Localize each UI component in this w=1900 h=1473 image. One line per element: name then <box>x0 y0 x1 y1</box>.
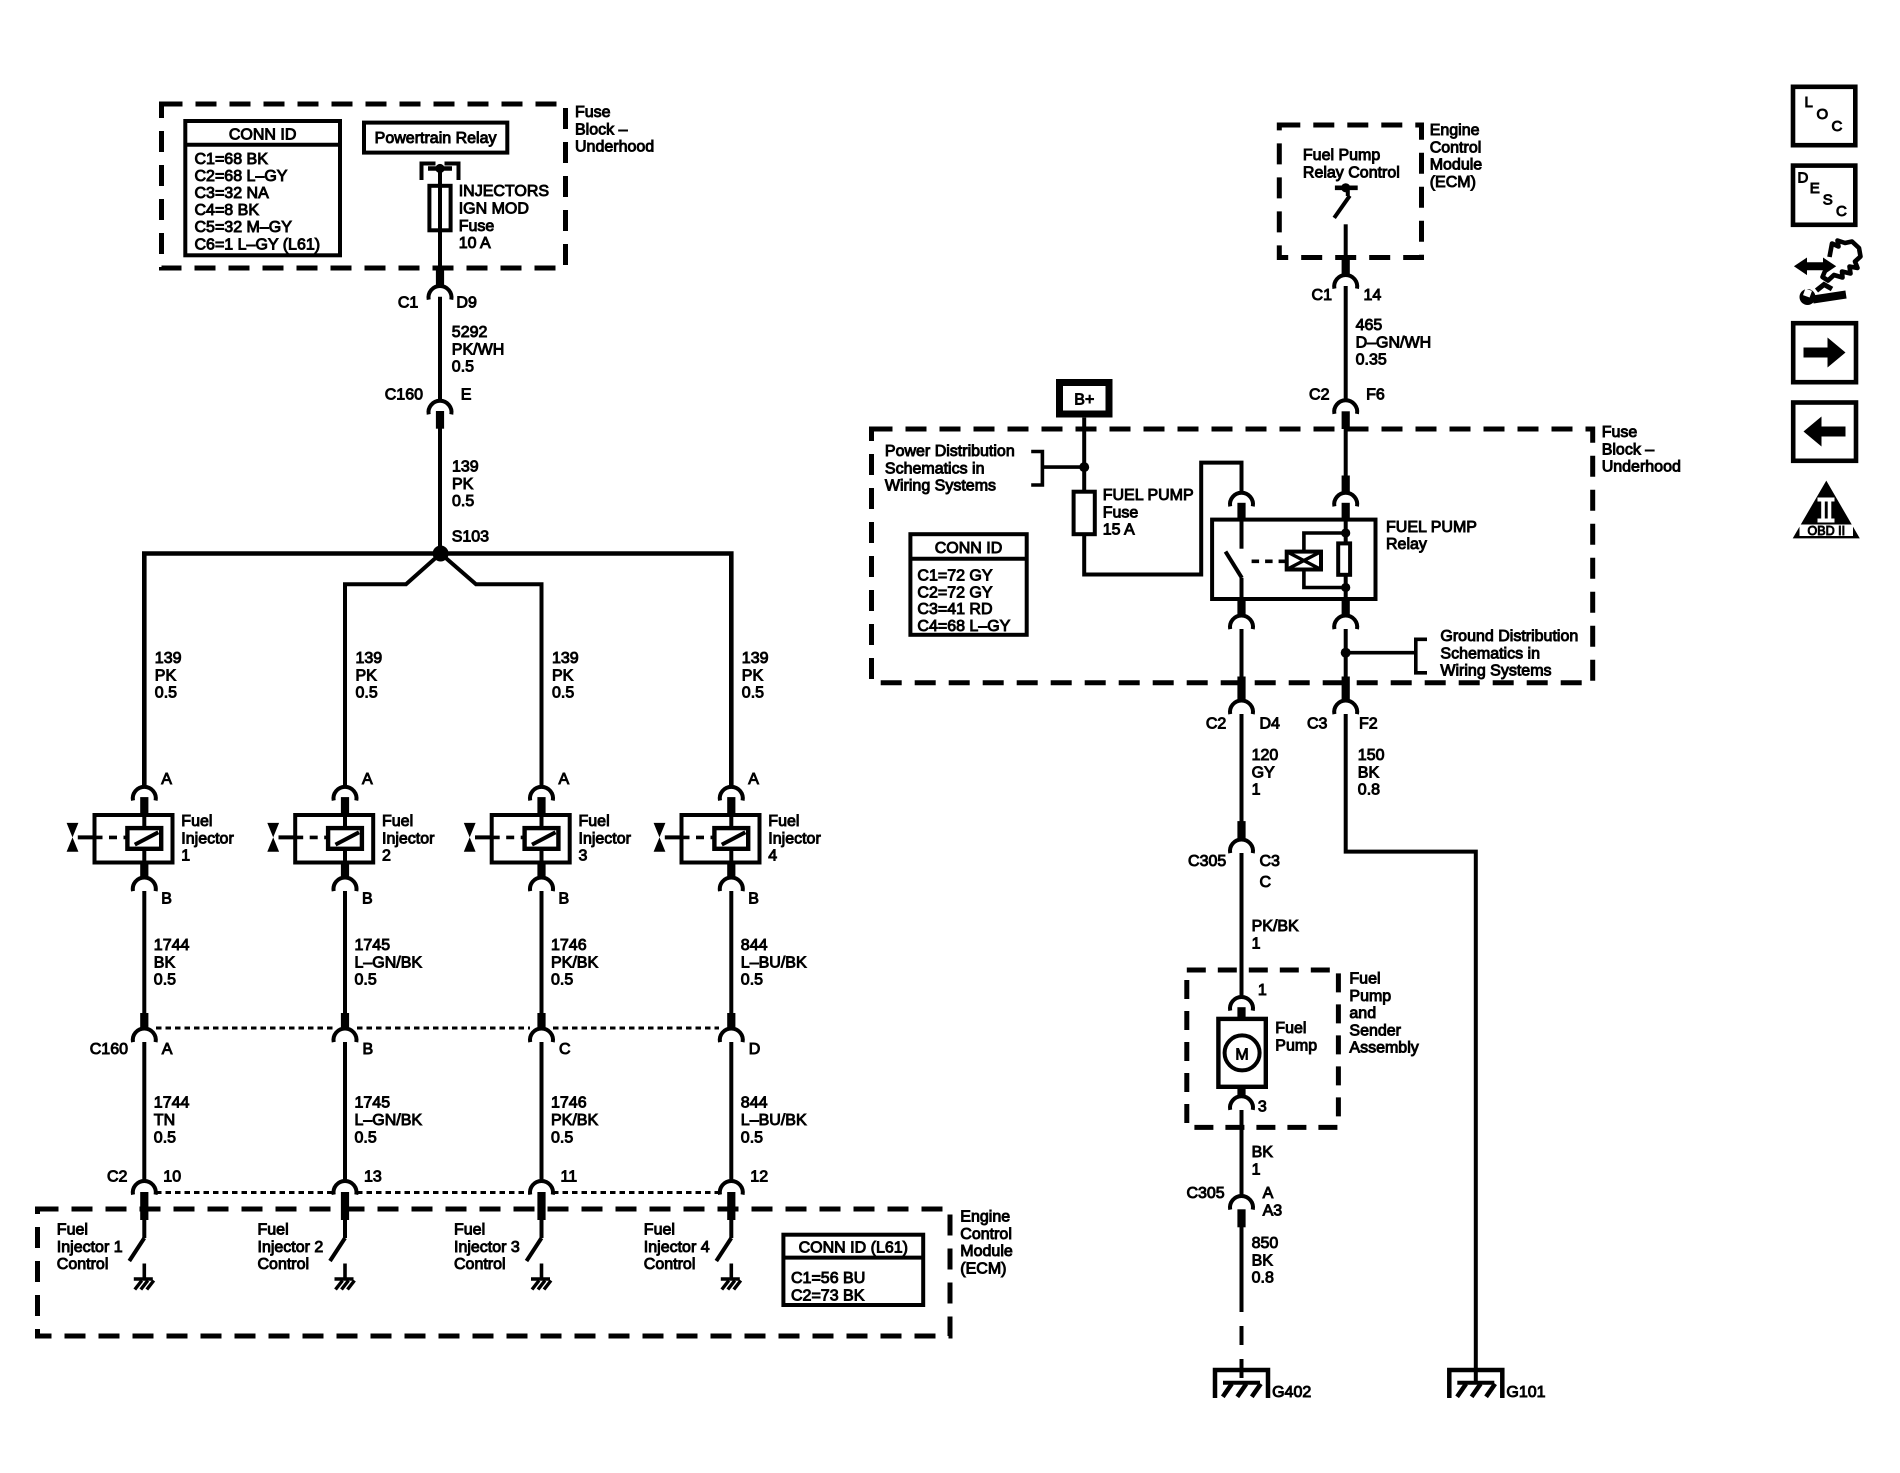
svg-text:Control: Control <box>454 1256 506 1273</box>
fuse FUEL PUMP 15A <box>1074 492 1095 535</box>
svg-text:C1: C1 <box>398 295 419 312</box>
svg-text:3: 3 <box>579 848 588 865</box>
connector C1/D9 <box>398 269 477 312</box>
splice S103 <box>433 529 490 562</box>
svg-text:C: C <box>1260 874 1272 891</box>
label: Power Distribution Schematics in Wiring Systems <box>885 443 1015 495</box>
svg-text:PK: PK <box>356 667 378 684</box>
fuel injector 2 pin B <box>334 863 373 908</box>
svg-text:Control: Control <box>960 1226 1012 1243</box>
fuel injector 3 pin B <box>530 863 569 908</box>
svg-text:C: C <box>559 1041 571 1058</box>
svg-text:Ground Distribution: Ground Distribution <box>1440 628 1578 645</box>
svg-text:PK/BK: PK/BK <box>1252 918 1299 935</box>
label: Fuel Injector 1 <box>181 813 234 865</box>
wire value: 844 L&#8211;BU/BK 0.5 <box>741 1095 807 1147</box>
wire BK 1 <box>1240 1110 1244 1196</box>
svg-text:A: A <box>559 771 570 788</box>
svg-text:Relay Control: Relay Control <box>1303 164 1400 181</box>
fuel injector 1 pin B <box>133 863 172 908</box>
wire value: 139 PK 0.5 (trunk) <box>452 459 479 511</box>
svg-text:Fuel: Fuel <box>579 813 610 830</box>
wire 850 BK 0.8 <box>1240 1227 1244 1293</box>
label: G101 <box>1506 1384 1545 1401</box>
label: Fuel Injector 3 <box>579 813 632 865</box>
relay coil bracket wires <box>1304 533 1346 588</box>
fuse block underhood (right) dashed box <box>872 429 1593 683</box>
CONN ID right values <box>917 568 1010 635</box>
svg-text:12: 12 <box>750 1169 768 1186</box>
wire (dashed continuation to G402) <box>1240 1293 1244 1383</box>
svg-text:C2=68 L–GY: C2=68 L–GY <box>195 168 288 185</box>
svg-text:Fuel: Fuel <box>181 813 212 830</box>
Powertrain Relay box <box>364 123 507 153</box>
svg-text:844: 844 <box>741 937 768 954</box>
svg-text:A: A <box>362 771 373 788</box>
junction node (coil top) <box>1341 528 1350 537</box>
fuse block underhood (left) dashed box <box>162 104 566 268</box>
svg-text:C160: C160 <box>385 387 423 404</box>
svg-text:Fuel: Fuel <box>644 1222 675 1239</box>
svg-text:CONN ID: CONN ID <box>229 127 297 144</box>
ground distribution bracket <box>1416 639 1427 673</box>
fuel injector 1 nozzle symbol <box>67 823 95 852</box>
wire value: 139 PK 0.5 (branch 3) <box>552 650 579 702</box>
svg-text:A: A <box>162 1041 173 1058</box>
svg-text:Fuel Pump: Fuel Pump <box>1303 147 1380 164</box>
svg-text:10: 10 <box>163 1169 181 1186</box>
svg-text:Assembly: Assembly <box>1349 1040 1418 1057</box>
svg-text:Fuel: Fuel <box>382 813 413 830</box>
wire value: 139 PK 0.5 (branch 1) <box>155 650 182 702</box>
svg-text:PK: PK <box>742 667 764 684</box>
fuel injector 2 nozzle symbol <box>267 823 295 852</box>
svg-text:G402: G402 <box>1272 1384 1311 1401</box>
fuel pump pin 1 <box>1230 982 1267 1020</box>
svg-text:0.8: 0.8 <box>1358 782 1380 799</box>
svg-text:139: 139 <box>452 459 479 476</box>
wire 1745 (C160 to ECM) <box>343 1042 347 1181</box>
wire 5292 PK/WH 0.5 <box>438 297 442 401</box>
fuel injector 1 control driver (switch) <box>129 1220 144 1280</box>
wire value: 139 PK 0.5 (branch 2) <box>356 650 383 702</box>
svg-text:Fuel: Fuel <box>454 1222 485 1239</box>
svg-text:Underhood: Underhood <box>575 139 654 156</box>
svg-text:Control: Control <box>644 1256 696 1273</box>
svg-text:3: 3 <box>1258 1099 1267 1116</box>
engine control module (ECM, top right) dashed box <box>1279 125 1421 258</box>
svg-text:13: 13 <box>364 1169 382 1186</box>
svg-text:BK: BK <box>154 954 176 971</box>
svg-text:1: 1 <box>181 848 190 865</box>
svg-text:1: 1 <box>1252 1161 1261 1178</box>
svg-text:Pump: Pump <box>1275 1037 1317 1054</box>
svg-text:D: D <box>1798 170 1809 187</box>
svg-text:0.5: 0.5 <box>155 685 177 702</box>
svg-text:Schematics in: Schematics in <box>885 460 985 477</box>
svg-text:0.8: 0.8 <box>1252 1270 1274 1287</box>
svg-text:B: B <box>363 1041 374 1058</box>
svg-text:Fuse: Fuse <box>459 218 495 235</box>
connector C160 pin D <box>720 1014 761 1059</box>
svg-text:Control: Control <box>57 1256 109 1273</box>
svg-text:C160: C160 <box>90 1041 128 1058</box>
svg-text:Fuel: Fuel <box>258 1222 289 1239</box>
fuel injector 2 control driver (switch) <box>330 1220 345 1280</box>
label: Fuel Injector 3 Control <box>454 1222 520 1274</box>
svg-text:Control: Control <box>258 1256 310 1273</box>
svg-text:Schematics in: Schematics in <box>1440 645 1540 662</box>
svg-text:C3=32 NA: C3=32 NA <box>195 185 270 202</box>
svg-text:D: D <box>749 1041 761 1058</box>
svg-text:(ECM): (ECM) <box>960 1260 1006 1277</box>
label: Engine Control Module (ECM) top <box>1430 122 1483 191</box>
svg-text:15 A: 15 A <box>1103 522 1135 539</box>
svg-text:1746: 1746 <box>551 937 587 954</box>
svg-text:Relay: Relay <box>1386 536 1427 553</box>
wire value: 850 BK 0.8 <box>1252 1235 1279 1287</box>
label: Fuel Injector 4 <box>768 813 821 865</box>
svg-text:Sender: Sender <box>1349 1022 1401 1039</box>
svg-text:C2: C2 <box>107 1169 128 1186</box>
powertrain relay contact symbol <box>422 164 459 181</box>
svg-text:1745: 1745 <box>355 1095 391 1112</box>
svg-text:Module: Module <box>960 1243 1013 1260</box>
relay resistor <box>1338 520 1350 599</box>
svg-text:C5=32 M–GY: C5=32 M–GY <box>195 219 293 236</box>
svg-text:C2: C2 <box>1309 387 1330 404</box>
wire: splice branch to injector 2 <box>345 554 441 787</box>
label: Engine Control Module (ECM) bottom <box>960 1209 1013 1278</box>
connector C2 dashed line <box>156 1191 719 1194</box>
junction node (coil bottom) <box>1341 583 1350 592</box>
connector C2 pin 11 <box>530 1169 577 1220</box>
svg-text:844: 844 <box>741 1095 768 1112</box>
svg-text:Fuse: Fuse <box>1103 504 1139 521</box>
svg-text:C2: C2 <box>1206 715 1227 732</box>
svg-text:Wiring Systems: Wiring Systems <box>885 478 996 495</box>
svg-text:C: C <box>1836 203 1847 220</box>
svg-text:465: 465 <box>1356 317 1383 334</box>
svg-text:PK: PK <box>155 667 177 684</box>
svg-text:Engine: Engine <box>960 1209 1010 1226</box>
icon: forward arrow button <box>1793 323 1856 382</box>
svg-text:0.5: 0.5 <box>355 972 377 989</box>
connector C160/E <box>385 387 472 429</box>
svg-text:0.5: 0.5 <box>551 1129 573 1146</box>
svg-text:0.5: 0.5 <box>452 359 474 376</box>
wire value: 1745 L&#8211;GN/BK 0.5 <box>355 937 423 989</box>
fuel pump pin 3 <box>1230 1087 1267 1116</box>
label: FUEL PUMP Relay <box>1386 519 1477 553</box>
svg-text:Pump: Pump <box>1349 988 1391 1005</box>
svg-text:Fuel: Fuel <box>1275 1020 1306 1037</box>
relay input connector (switch side) <box>1230 493 1253 520</box>
connector C2/D4 <box>1206 677 1280 732</box>
wire 139 PK 0.5 (trunk) <box>438 428 442 549</box>
fuel injector 3 (solenoid valve) <box>492 815 570 863</box>
connector C3/F2 <box>1307 677 1378 732</box>
wire value: 120 GY 1 <box>1252 747 1279 799</box>
svg-text:1: 1 <box>1252 935 1261 952</box>
svg-text:850: 850 <box>1252 1235 1279 1252</box>
wire: relay output to C2/D4 <box>1240 629 1244 677</box>
label: C305 pin C <box>1260 874 1272 891</box>
label: Ground Distribution Schematics in Wiring Systems <box>1440 628 1578 680</box>
svg-text:C305: C305 <box>1188 853 1226 870</box>
fuel injector 3 nozzle symbol <box>464 823 492 852</box>
fuel injector 4 (solenoid valve) <box>682 815 760 863</box>
fuel injector 2 pin A <box>334 771 374 815</box>
svg-text:Block –: Block – <box>575 121 628 138</box>
svg-text:1: 1 <box>1258 982 1267 999</box>
svg-text:A: A <box>1263 1185 1274 1202</box>
fuel pump and sender assembly dashed box <box>1187 970 1339 1127</box>
svg-text:Underhood: Underhood <box>1602 459 1681 476</box>
svg-text:PK: PK <box>452 476 474 493</box>
svg-text:S: S <box>1823 192 1833 209</box>
fuel pump motor M <box>1218 1019 1265 1087</box>
label C160 (connector row) <box>90 1041 128 1058</box>
svg-text:Injector 3: Injector 3 <box>454 1239 520 1256</box>
svg-text:A3: A3 <box>1263 1203 1283 1220</box>
svg-text:C4=68 L–GY: C4=68 L–GY <box>917 618 1010 635</box>
ground (fuel injector 3 control) <box>531 1279 551 1290</box>
label: Fuel Pump and Sender Assembly <box>1349 971 1418 1057</box>
svg-text:FUEL PUMP: FUEL PUMP <box>1386 519 1477 536</box>
svg-text:Injector: Injector <box>768 830 821 847</box>
wire 465 D-GN/WH 0.35 <box>1344 286 1348 400</box>
svg-text:D4: D4 <box>1260 715 1281 732</box>
CONN ID table (fuse block right) <box>910 534 1026 635</box>
svg-text:Fuse: Fuse <box>575 104 611 121</box>
connector C160 pin A <box>133 1014 173 1059</box>
svg-text:1744: 1744 <box>154 1095 190 1112</box>
icon: back arrow button <box>1793 403 1856 461</box>
svg-text:L–BU/BK: L–BU/BK <box>741 1112 807 1129</box>
battery feed B+ <box>1060 383 1110 415</box>
svg-text:BK: BK <box>1252 1144 1274 1161</box>
wire 1746 (injector 3 to C160) <box>540 891 544 1017</box>
wire value: 1744 TN 0.5 <box>154 1095 190 1147</box>
svg-text:B: B <box>559 891 570 908</box>
svg-text:CONN ID (L61): CONN ID (L61) <box>799 1240 908 1257</box>
CONN ID table values <box>195 151 321 254</box>
wire: splice branch to injector 3 <box>441 554 542 787</box>
connector C160 dashed line <box>156 1027 719 1030</box>
svg-text:Injector 4: Injector 4 <box>644 1239 710 1256</box>
svg-text:Powertrain Relay: Powertrain Relay <box>375 130 497 147</box>
svg-text:1745: 1745 <box>355 937 391 954</box>
svg-text:PK/WH: PK/WH <box>452 341 504 358</box>
wire 150 BK 0.8 (to G101) <box>1346 714 1476 1383</box>
svg-text:C3: C3 <box>1260 853 1281 870</box>
svg-text:D9: D9 <box>456 295 477 312</box>
wire: C2/F6 to fuel pump relay <box>1344 429 1348 493</box>
relay contact (switch) <box>1226 520 1242 599</box>
svg-text:A: A <box>161 771 172 788</box>
ground (fuel injector 4 control) <box>721 1279 741 1290</box>
svg-text:4: 4 <box>768 848 777 865</box>
svg-text:C1=68 BK: C1=68 BK <box>195 151 269 168</box>
svg-text:Injector: Injector <box>579 830 632 847</box>
svg-text:0.5: 0.5 <box>356 685 378 702</box>
svg-text:139: 139 <box>552 650 579 667</box>
svg-text:FUEL PUMP: FUEL PUMP <box>1103 487 1194 504</box>
svg-text:C1=56 BU: C1=56 BU <box>791 1270 865 1287</box>
junction node (ground distribution) <box>1341 648 1416 658</box>
svg-text:OBD II: OBD II <box>1808 524 1846 538</box>
svg-text:BK: BK <box>1252 1252 1274 1269</box>
svg-text:1: 1 <box>1252 782 1261 799</box>
svg-text:Fuse: Fuse <box>1602 424 1638 441</box>
svg-text:PK/BK: PK/BK <box>551 1112 598 1129</box>
svg-text:Engine: Engine <box>1430 122 1480 139</box>
CONN ID (L61) table <box>783 1235 923 1305</box>
wire value: 5292 PK/WH 0.5 <box>452 324 504 376</box>
label: FUEL PUMP Fuse 15 A <box>1103 487 1194 539</box>
svg-text:120: 120 <box>1252 747 1279 764</box>
svg-text:C6=1 L–GY (L61): C6=1 L–GY (L61) <box>195 236 321 253</box>
fuel injector 4 nozzle symbol <box>654 823 682 852</box>
svg-text:11: 11 <box>561 1169 578 1186</box>
connector C2/F6 <box>1309 387 1385 429</box>
svg-text:Injector: Injector <box>181 830 234 847</box>
FUEL PUMP relay box <box>1212 520 1375 599</box>
svg-text:S103: S103 <box>452 529 489 546</box>
svg-text:INJECTORS: INJECTORS <box>459 183 549 200</box>
icon: OBD II badge <box>1793 481 1860 539</box>
label: Fuel Injector 1 Control <box>57 1222 123 1274</box>
svg-text:14: 14 <box>1364 287 1382 304</box>
svg-text:TN: TN <box>154 1112 175 1129</box>
wire value: 844 L&#8211;BU/BK 0.5 <box>741 937 807 989</box>
svg-text:0.5: 0.5 <box>355 1129 377 1146</box>
wire value: 465 D-GN/WH 0.35 <box>1356 317 1432 369</box>
svg-text:BK: BK <box>1358 764 1380 781</box>
svg-text:B+: B+ <box>1074 392 1094 409</box>
svg-text:PK/BK: PK/BK <box>551 954 598 971</box>
ground G402 <box>1215 1370 1268 1398</box>
wire value: BK 1 <box>1252 1144 1274 1178</box>
svg-text:C4=8 BK: C4=8 BK <box>195 202 260 219</box>
wire 1746 (C160 to ECM) <box>540 1042 544 1181</box>
svg-text:C305: C305 <box>1186 1185 1224 1202</box>
svg-text:0.5: 0.5 <box>742 685 764 702</box>
svg-text:Injector 1: Injector 1 <box>57 1239 123 1256</box>
svg-text:F2: F2 <box>1359 715 1378 732</box>
connector C2 pin 10 <box>133 1169 181 1220</box>
CONN ID table (fuse block left) <box>185 121 340 255</box>
fuel injector 3 control driver (switch) <box>527 1220 542 1280</box>
svg-text:M: M <box>1235 1046 1248 1063</box>
svg-text:L–GN/BK: L–GN/BK <box>355 1112 423 1129</box>
label: G402 <box>1272 1384 1311 1401</box>
svg-text:Module: Module <box>1430 157 1483 174</box>
wire: fuse to relay switch <box>1084 463 1241 575</box>
svg-text:Injector 2: Injector 2 <box>258 1239 324 1256</box>
svg-text:B: B <box>362 891 373 908</box>
connector C305/A/A3 <box>1186 1185 1282 1227</box>
svg-text:B: B <box>748 891 759 908</box>
fuel injector 4 pin A <box>720 771 759 815</box>
power distribution bracket + wire <box>1031 452 1084 486</box>
relay coil <box>1287 552 1321 570</box>
fuel pump relay control driver (switch) <box>1334 183 1358 257</box>
svg-text:Fuel: Fuel <box>57 1222 88 1239</box>
svg-text:PK: PK <box>552 667 574 684</box>
svg-text:IGN MOD: IGN MOD <box>459 200 529 217</box>
svg-text:0.5: 0.5 <box>552 685 574 702</box>
svg-text:2: 2 <box>382 848 391 865</box>
wire value: 1746 PK/BK 0.5 <box>551 1095 598 1147</box>
fuel injector 4 pin B <box>720 863 759 908</box>
svg-text:C2=73 BK: C2=73 BK <box>791 1287 865 1304</box>
relay output connector (coil side) <box>1334 599 1357 629</box>
label: Fuse Block - Underhood (right) <box>1602 424 1681 476</box>
wire value: 150 BK 0.8 <box>1358 747 1385 799</box>
CONN ID (L61) values <box>791 1270 865 1304</box>
relay actuation dashed link <box>1252 559 1287 563</box>
svg-text:B: B <box>161 891 172 908</box>
svg-text:1746: 1746 <box>551 1095 587 1112</box>
svg-text:Block –: Block – <box>1602 441 1655 458</box>
icon: LOC button <box>1793 87 1855 145</box>
svg-text:A: A <box>748 771 759 788</box>
connector C160 pin B <box>334 1014 374 1059</box>
label: Fuel Injector 2 Control <box>258 1222 324 1274</box>
connector C160 pin C <box>530 1014 571 1059</box>
svg-text:C3=41 RD: C3=41 RD <box>917 601 992 618</box>
svg-text:L–BU/BK: L–BU/BK <box>741 954 807 971</box>
label: Fuel Pump <box>1275 1020 1317 1054</box>
svg-text:Wiring Systems: Wiring Systems <box>1440 663 1551 680</box>
svg-text:0.5: 0.5 <box>741 972 763 989</box>
label: INJECTORS IGN MOD Fuse 10 A <box>459 183 549 252</box>
wire value: 139 PK 0.5 (branch 4) <box>742 650 769 702</box>
wire 120 GY 1 <box>1240 714 1244 839</box>
wire: splice branch to injectors 1 and 4 <box>144 554 731 787</box>
fuel injector 4 control driver (switch) <box>716 1220 731 1280</box>
ground (fuel injector 2 control) <box>335 1279 355 1290</box>
label: Fuse Block - Underhood (left) <box>575 104 654 156</box>
svg-text:C1: C1 <box>1312 287 1333 304</box>
svg-text:139: 139 <box>742 650 769 667</box>
wire: B+ to fuel pump fuse <box>1082 418 1086 492</box>
fuse INJECTORS IGN MOD 10A <box>429 186 450 231</box>
fuel injector 3 pin A <box>530 771 570 815</box>
wire value: 1745 L&#8211;GN/BK 0.5 <box>355 1095 423 1147</box>
svg-text:10 A: 10 A <box>459 235 491 252</box>
svg-text:C3: C3 <box>1307 715 1328 732</box>
svg-text:0.35: 0.35 <box>1356 352 1387 369</box>
wire value: 1746 PK/BK 0.5 <box>551 937 598 989</box>
label C2 (connector row) <box>107 1169 128 1186</box>
svg-text:G101: G101 <box>1506 1384 1545 1401</box>
connector C1/14 <box>1312 258 1382 305</box>
fuel injector 1 pin A <box>133 771 173 815</box>
icon: DESC button <box>1793 166 1855 225</box>
svg-text:E: E <box>461 387 472 404</box>
svg-text:139: 139 <box>155 650 182 667</box>
label: Fuel Injector 4 Control <box>644 1222 710 1274</box>
wire: relay to fuse <box>438 169 442 270</box>
wire value: 1744 BK 0.5 <box>154 937 190 989</box>
svg-text:L–GN/BK: L–GN/BK <box>355 954 423 971</box>
svg-text:1744: 1744 <box>154 937 190 954</box>
fuel injector 2 (solenoid valve) <box>295 815 373 863</box>
label: Fuel Pump Relay Control <box>1303 147 1400 181</box>
